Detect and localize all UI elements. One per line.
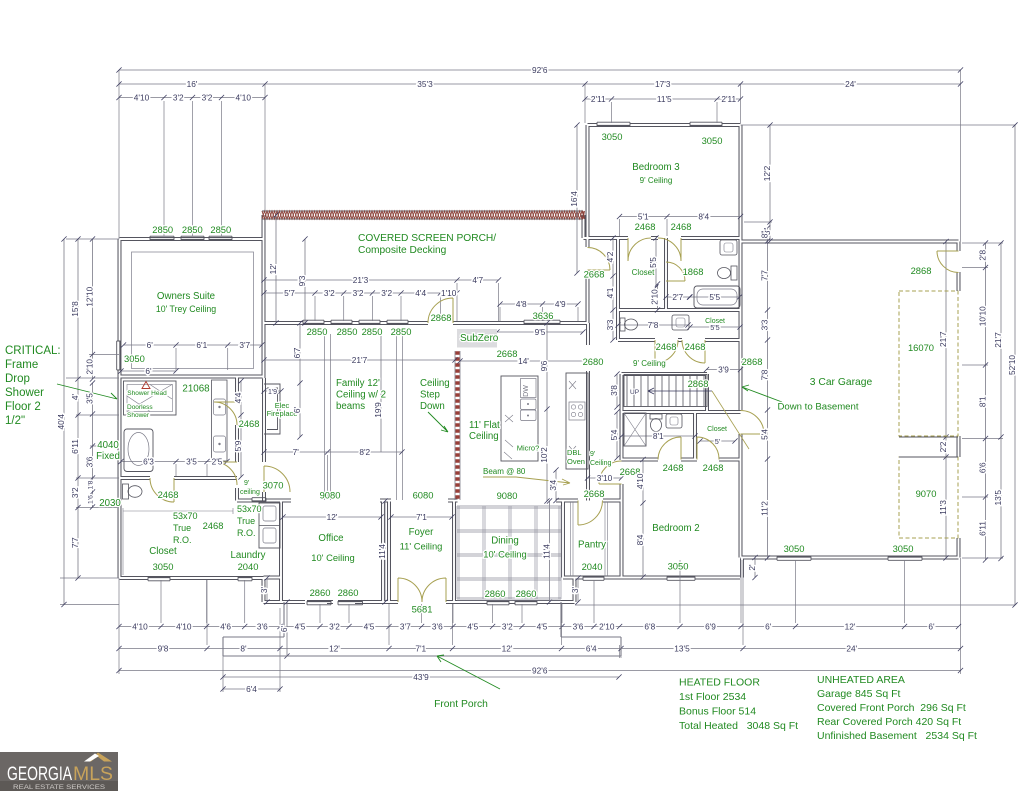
svg-text:17'3: 17'3 — [655, 79, 671, 89]
doors — [150, 238, 959, 602]
svg-text:Shower: Shower — [127, 412, 150, 419]
svg-text:3'5: 3'5 — [85, 393, 95, 404]
svg-text:5'4: 5'4 — [609, 429, 619, 440]
svg-text:10'2: 10'2 — [539, 447, 549, 463]
svg-text:Dining: Dining — [491, 536, 518, 547]
bath3 tub inner — [697, 289, 737, 305]
svg-text:3'3: 3'3 — [605, 319, 615, 330]
svg-text:6': 6' — [147, 340, 154, 350]
svg-text:4'10: 4'10 — [132, 621, 148, 631]
svg-text:53x70: 53x70 — [237, 504, 262, 514]
svg-text:5'9: 5'9 — [233, 440, 243, 451]
garage door 16070 dashed — [899, 291, 958, 436]
svg-text:2': 2' — [747, 564, 757, 571]
svg-text:16'4: 16'4 — [569, 191, 579, 207]
svg-text:Family 12': Family 12' — [336, 378, 380, 389]
svg-text:CRITICAL:: CRITICAL: — [5, 345, 61, 357]
svg-text:43'9: 43'9 — [413, 672, 429, 682]
svg-text:4'1: 4'1 — [605, 287, 615, 298]
svg-text:7'8: 7'8 — [760, 369, 770, 380]
svg-text:2868: 2868 — [688, 378, 709, 389]
svg-text:Rear Covered Porch 420 Sq Ft: Rear Covered Porch 420 Sq Ft — [817, 716, 961, 728]
svg-text:2868: 2868 — [911, 265, 932, 276]
svg-text:4'2: 4'2 — [605, 251, 615, 262]
svg-text:3'10: 3'10 — [597, 473, 613, 483]
svg-text:True: True — [237, 516, 255, 526]
svg-text:2'10: 2'10 — [599, 621, 615, 631]
stairs — [624, 375, 707, 407]
svg-text:4'10: 4'10 — [635, 473, 645, 489]
svg-text:12': 12' — [845, 621, 856, 631]
svg-text:3'4: 3'4 — [548, 479, 558, 490]
owners shower — [124, 381, 177, 415]
walls dark outline — [120, 125, 959, 602]
svg-text:2850: 2850 — [391, 326, 412, 337]
georgia mls logo — [0, 752, 118, 791]
svg-text:2860: 2860 — [485, 588, 506, 599]
svg-text:Micro?: Micro? — [517, 444, 540, 453]
svg-text:6'6: 6'6 — [978, 462, 988, 473]
extension lines — [60, 70, 1015, 692]
svg-text:9' Ceiling: 9' Ceiling — [640, 176, 673, 185]
svg-text:2468: 2468 — [203, 520, 224, 531]
svg-text:GEORGIA: GEORGIA — [7, 764, 72, 785]
svg-text:4'5: 4'5 — [467, 621, 478, 631]
svg-text:3'6: 3'6 — [85, 456, 95, 467]
svg-text:3': 3' — [570, 586, 580, 593]
svg-text:2'2: 2'2 — [938, 441, 948, 452]
svg-text:3'9: 3'9 — [718, 364, 729, 374]
svg-text:1st Floor 2534: 1st Floor 2534 — [679, 691, 746, 703]
svg-text:2668: 2668 — [584, 269, 605, 280]
svg-text:6'9: 6'9 — [705, 621, 716, 631]
owners toilet — [123, 484, 129, 499]
svg-text:9': 9' — [590, 451, 595, 458]
svg-text:ceiling: ceiling — [240, 489, 260, 496]
svg-text:2680: 2680 — [583, 356, 604, 367]
svg-text:3050: 3050 — [668, 561, 689, 572]
svg-text:3050: 3050 — [893, 543, 914, 554]
svg-text:19'9: 19'9 — [373, 402, 383, 418]
svg-text:3'6: 3'6 — [257, 621, 268, 631]
svg-text:35'3: 35'3 — [417, 79, 433, 89]
svg-text:Shower Head: Shower Head — [127, 390, 167, 397]
svg-text:53x70: 53x70 — [173, 511, 198, 521]
svg-text:10' Ceiling: 10' Ceiling — [483, 549, 526, 560]
svg-text:Bedroom 2: Bedroom 2 — [652, 523, 699, 534]
svg-text:4'10: 4'10 — [176, 621, 192, 631]
svg-text:12': 12' — [268, 263, 278, 274]
svg-text:Frame: Frame — [5, 359, 38, 371]
svg-text:8'1: 8'1 — [978, 396, 988, 407]
svg-text:5'5: 5'5 — [648, 257, 658, 268]
svg-text:12': 12' — [502, 643, 513, 653]
svg-text:6'7: 6'7 — [292, 347, 302, 358]
svg-text:2860: 2860 — [310, 587, 331, 598]
svg-text:4'8: 4'8 — [516, 299, 527, 309]
svg-text:2850: 2850 — [210, 224, 231, 235]
svg-text:REAL ESTATE SERVICES: REAL ESTATE SERVICES — [13, 785, 105, 791]
svg-text:7'1: 7'1 — [416, 512, 427, 522]
svg-text:13'5: 13'5 — [674, 643, 690, 653]
svg-text:92'6: 92'6 — [532, 665, 548, 675]
kitchen counter and subzero — [457, 329, 497, 348]
svg-text:R.O.: R.O. — [237, 528, 256, 538]
svg-text:11'3: 11'3 — [938, 500, 948, 515]
svg-text:8'4: 8'4 — [635, 534, 645, 545]
understairs shower — [624, 413, 646, 446]
svg-text:Laundry: Laundry — [230, 550, 265, 561]
svg-text:11'2: 11'2 — [760, 501, 770, 516]
svg-text:2468: 2468 — [671, 221, 692, 232]
svg-text:Front Porch: Front Porch — [434, 699, 488, 710]
svg-text:HEATED FLOOR: HEATED FLOOR — [679, 677, 760, 689]
svg-text:3050: 3050 — [602, 131, 623, 142]
svg-text:2'10: 2'10 — [650, 289, 660, 305]
svg-text:7'8: 7'8 — [648, 320, 659, 330]
svg-text:8'2: 8'2 — [359, 447, 370, 457]
svg-text:2850: 2850 — [307, 326, 328, 337]
svg-text:Closet: Closet — [707, 426, 727, 433]
svg-text:9'3: 9'3 — [297, 275, 307, 286]
svg-text:7'7: 7'7 — [760, 270, 770, 281]
svg-text:Beam @ 80: Beam @ 80 — [483, 467, 526, 476]
svg-text:1'9: 1'9 — [268, 389, 277, 396]
svg-text:2468: 2468 — [635, 221, 656, 232]
svg-text:1'6: 1'6 — [88, 495, 95, 504]
svg-text:DBL: DBL — [567, 448, 582, 457]
svg-text:4'7: 4'7 — [472, 275, 483, 285]
svg-text:21'7: 21'7 — [352, 355, 368, 365]
svg-text:5'4: 5'4 — [760, 429, 770, 440]
svg-text:Garage 845 Sq Ft: Garage 845 Sq Ft — [817, 688, 901, 700]
svg-text:10' Trey Ceiling: 10' Trey Ceiling — [156, 304, 216, 314]
svg-text:92'6: 92'6 — [532, 65, 548, 75]
svg-text:2'8: 2'8 — [978, 249, 988, 260]
svg-text:UP: UP — [630, 389, 639, 396]
svg-text:Down to Basement: Down to Basement — [777, 402, 858, 413]
svg-text:2850: 2850 — [337, 326, 358, 337]
svg-text:Composite Decking: Composite Decking — [358, 245, 447, 256]
svg-text:11'5: 11'5 — [657, 94, 672, 104]
svg-text:4'6: 4'6 — [220, 621, 231, 631]
svg-text:3050: 3050 — [784, 543, 805, 554]
svg-text:3'6: 3'6 — [432, 621, 443, 631]
svg-text:DW: DW — [523, 385, 530, 397]
svg-text:2850: 2850 — [152, 224, 173, 235]
front porch slab — [223, 602, 621, 656]
kitchen island — [501, 376, 538, 461]
svg-text:MLS: MLS — [73, 764, 113, 785]
svg-text:6': 6' — [292, 406, 302, 413]
svg-text:4'9: 4'9 — [555, 299, 566, 309]
elec fireplace — [264, 384, 280, 434]
svg-text:16070: 16070 — [908, 342, 934, 353]
dining coffered ceiling grid — [457, 506, 561, 600]
svg-text:2850: 2850 — [182, 224, 203, 235]
svg-text:12'2: 12'2 — [762, 165, 772, 181]
svg-text:40'4: 40'4 — [56, 414, 66, 430]
svg-text:3'2: 3'2 — [202, 92, 213, 102]
arrows — [57, 384, 117, 399]
laundry washer dryer — [259, 503, 280, 548]
svg-text:12': 12' — [329, 643, 340, 653]
svg-text:beams: beams — [336, 401, 365, 412]
svg-text:1'8: 1'8 — [88, 480, 95, 489]
svg-text:Owners Suite: Owners Suite — [157, 291, 215, 302]
svg-text:2668: 2668 — [497, 348, 518, 359]
svg-text:8'4: 8'4 — [698, 211, 709, 221]
understairs toilet — [650, 414, 662, 419]
svg-text:2860: 2860 — [516, 588, 537, 599]
svg-text:1/2": 1/2" — [5, 415, 25, 427]
bath3 tub — [694, 286, 740, 308]
svg-text:21'7: 21'7 — [938, 331, 948, 347]
svg-text:9080: 9080 — [320, 490, 341, 501]
svg-text:16': 16' — [187, 79, 198, 89]
svg-text:14': 14' — [518, 356, 529, 366]
svg-text:2860: 2860 — [338, 587, 359, 598]
trey ceiling rectangle — [132, 252, 254, 369]
svg-text:Floor 2: Floor 2 — [5, 401, 41, 413]
svg-text:4'5: 4'5 — [364, 621, 375, 631]
svg-text:1868: 1868 — [683, 266, 704, 277]
svg-text:7'7: 7'7 — [70, 537, 80, 548]
svg-text:6': 6' — [279, 625, 289, 632]
svg-text:Bonus Floor 514: Bonus Floor 514 — [679, 706, 756, 718]
svg-text:Down: Down — [420, 401, 445, 412]
svg-text:Fixed: Fixed — [96, 451, 120, 462]
svg-text:6'4: 6'4 — [246, 684, 257, 694]
svg-text:3050: 3050 — [153, 561, 174, 572]
svg-text:5'5: 5'5 — [709, 292, 720, 302]
svg-text:2468: 2468 — [158, 489, 179, 500]
svg-text:3 Car Garage: 3 Car Garage — [810, 377, 873, 388]
svg-text:2'10: 2'10 — [85, 359, 95, 375]
kitchen oven counter — [566, 373, 588, 469]
svg-text:6'11: 6'11 — [978, 521, 988, 536]
svg-text:Drop: Drop — [5, 373, 30, 385]
garage door 9070 dashed — [899, 457, 958, 538]
svg-text:21068: 21068 — [182, 384, 210, 395]
svg-text:3'7: 3'7 — [239, 340, 250, 350]
svg-text:3'2: 3'2 — [381, 288, 392, 298]
svg-text:3'2: 3'2 — [329, 621, 340, 631]
svg-text:6': 6' — [765, 621, 772, 631]
svg-text:3070: 3070 — [263, 480, 284, 491]
bath3 sink — [720, 240, 737, 255]
svg-text:9080: 9080 — [497, 490, 518, 501]
svg-text:6': 6' — [928, 621, 935, 631]
svg-text:2468: 2468 — [656, 341, 677, 352]
svg-text:4'10: 4'10 — [236, 92, 252, 102]
svg-text:15'8: 15'8 — [70, 301, 80, 317]
svg-text:3'6: 3'6 — [573, 621, 584, 631]
svg-text:3'3: 3'3 — [760, 319, 770, 330]
svg-text:4040: 4040 — [97, 440, 119, 451]
svg-text:2'5: 2'5 — [212, 456, 223, 466]
owners tub — [124, 429, 153, 472]
svg-text:24': 24' — [846, 643, 857, 653]
svg-text:9070: 9070 — [916, 488, 937, 499]
svg-text:Covered Front Porch 296 Sq Ft: Covered Front Porch 296 Sq Ft — [817, 702, 966, 714]
svg-text:Shower: Shower — [5, 387, 44, 399]
svg-text:2030: 2030 — [99, 498, 121, 509]
svg-text:Step: Step — [420, 390, 440, 401]
svg-text:4'10: 4'10 — [134, 92, 150, 102]
dimension lines — [64, 70, 1015, 689]
svg-text:2468: 2468 — [685, 341, 706, 352]
svg-text:5'7: 5'7 — [284, 288, 295, 298]
svg-text:4'4: 4'4 — [233, 392, 243, 403]
svg-text:2668: 2668 — [584, 488, 605, 499]
svg-text:SubZero: SubZero — [460, 333, 499, 344]
svg-text:Total Heated 3048 Sq Ft: Total Heated 3048 Sq Ft — [679, 720, 798, 732]
svg-text:2868: 2868 — [431, 312, 452, 323]
svg-text:True: True — [173, 523, 191, 533]
svg-text:3050: 3050 — [124, 353, 145, 364]
svg-text:2'7: 2'7 — [672, 292, 683, 302]
svg-text:2868: 2868 — [742, 356, 763, 367]
svg-text:UNHEATED AREA: UNHEATED AREA — [817, 674, 905, 686]
svg-text:Office: Office — [318, 533, 343, 544]
svg-text:4'5: 4'5 — [295, 621, 306, 631]
svg-text:8": 8" — [760, 231, 770, 239]
dimension ticks — [61, 67, 1017, 691]
pantry shelves — [571, 502, 608, 576]
svg-text:Ceiling: Ceiling — [420, 378, 450, 389]
svg-text:5'1: 5'1 — [638, 211, 649, 221]
svg-text:Unfinished Basement 2534 Sq: Unfinished Basement 2534 Sq Ft — [817, 730, 977, 742]
walls white core — [120, 125, 959, 602]
svg-text:6': 6' — [145, 366, 152, 376]
svg-text:11'4: 11'4 — [377, 544, 387, 559]
svg-text:3'5: 3'5 — [186, 456, 197, 466]
svg-text:4'5: 4'5 — [537, 621, 548, 631]
svg-text:5': 5' — [715, 437, 721, 446]
svg-text:9'8: 9'8 — [158, 643, 169, 653]
svg-text:2040: 2040 — [238, 561, 259, 572]
svg-text:2850: 2850 — [362, 326, 383, 337]
svg-text:21'3: 21'3 — [353, 275, 369, 285]
svg-text:13'5: 13'5 — [993, 490, 1003, 506]
svg-text:52'10: 52'10 — [1007, 355, 1017, 375]
svg-text:Ceiling: Ceiling — [590, 460, 612, 467]
svg-text:2468: 2468 — [663, 462, 684, 473]
svg-text:3'2: 3'2 — [502, 621, 513, 631]
svg-text:3'8: 3'8 — [609, 385, 619, 396]
svg-text:7'1: 7'1 — [415, 643, 426, 653]
svg-text:8': 8' — [240, 643, 247, 653]
svg-text:3636: 3636 — [533, 310, 554, 321]
toilet room sink — [672, 315, 689, 330]
svg-text:Ceiling: Ceiling — [469, 431, 499, 442]
svg-text:11'4: 11'4 — [542, 544, 552, 559]
screen porch hatched wall — [262, 211, 583, 219]
svg-text:6'1: 6'1 — [196, 340, 207, 350]
svg-text:2040: 2040 — [582, 561, 603, 572]
svg-text:1'10: 1'10 — [441, 288, 457, 298]
svg-text:9'5: 9'5 — [535, 327, 546, 337]
svg-text:12': 12' — [327, 512, 338, 522]
svg-text:8'1: 8'1 — [653, 431, 664, 441]
svg-text:24': 24' — [845, 79, 856, 89]
toilet room toilet — [620, 318, 625, 331]
svg-text:Closet: Closet — [632, 268, 655, 277]
svg-text:3'2: 3'2 — [70, 487, 80, 498]
svg-text:9': 9' — [244, 480, 249, 487]
svg-text:Foyer: Foyer — [409, 527, 435, 538]
svg-text:4': 4' — [70, 393, 80, 400]
svg-text:10'10: 10'10 — [978, 306, 988, 326]
svg-text:6'3: 6'3 — [143, 456, 154, 466]
ceiling step dashed line — [455, 351, 460, 500]
svg-text:2'11: 2'11 — [721, 94, 736, 104]
svg-text:Oven: Oven — [567, 457, 585, 466]
svg-text:5'5: 5'5 — [710, 323, 720, 332]
windows — [117, 122, 922, 605]
understairs sink — [666, 414, 682, 428]
svg-text:4'4: 4'4 — [415, 288, 426, 298]
svg-text:COVERED SCREEN PORCH/: COVERED SCREEN PORCH/ — [358, 233, 496, 244]
svg-text:11' Flat: 11' Flat — [469, 420, 500, 431]
svg-text:3'2: 3'2 — [353, 288, 364, 298]
svg-text:3': 3' — [259, 586, 269, 593]
svg-text:R.O.: R.O. — [173, 535, 192, 545]
svg-text:12'10: 12'10 — [85, 286, 95, 306]
garage door header lines — [899, 437, 958, 457]
svg-text:6'11: 6'11 — [70, 439, 80, 454]
svg-text:11' Ceiling: 11' Ceiling — [400, 541, 443, 552]
svg-text:Ceiling w/ 2: Ceiling w/ 2 — [336, 390, 386, 401]
svg-text:6'4: 6'4 — [586, 643, 597, 653]
svg-text:Pantry: Pantry — [578, 540, 606, 551]
bath3 toilet — [731, 266, 737, 280]
svg-text:Doorless: Doorless — [127, 404, 153, 411]
svg-text:3050: 3050 — [702, 135, 723, 146]
owners vanity — [212, 380, 228, 461]
svg-text:9' Ceiling: 9' Ceiling — [633, 359, 666, 368]
svg-text:9'6: 9'6 — [539, 360, 549, 371]
svg-text:3'2: 3'2 — [173, 92, 184, 102]
svg-text:2'11: 2'11 — [591, 94, 606, 104]
svg-text:21'7: 21'7 — [993, 332, 1003, 348]
svg-text:6080: 6080 — [413, 490, 434, 501]
svg-text:3'2: 3'2 — [324, 288, 335, 298]
closet shelf — [123, 508, 233, 575]
svg-text:3'7: 3'7 — [400, 621, 411, 631]
svg-text:5681: 5681 — [412, 604, 433, 615]
svg-text:7': 7' — [293, 447, 300, 457]
svg-text:6'8: 6'8 — [644, 621, 655, 631]
svg-text:Bedroom 3: Bedroom 3 — [632, 162, 679, 173]
svg-text:10' Ceiling: 10' Ceiling — [311, 552, 354, 563]
svg-text:Closet: Closet — [149, 546, 177, 557]
svg-text:2468: 2468 — [239, 418, 260, 429]
svg-text:2468: 2468 — [703, 462, 724, 473]
